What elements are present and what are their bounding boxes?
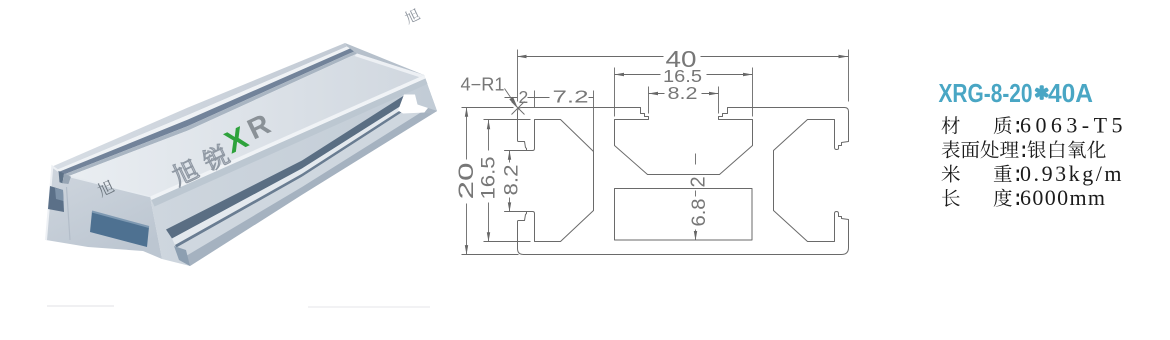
svg-text:7.2: 7.2	[553, 87, 589, 107]
svg-text:2: 2	[519, 87, 529, 107]
extrusion side face	[150, 75, 437, 266]
extrusion far cut end	[345, 43, 437, 111]
svg-text:2: 2	[688, 176, 710, 187]
dim 16.5 top line	[615, 74, 753, 76]
spec row 材质	[942, 116, 960, 134]
leader 4-R1	[510, 98, 516, 106]
svg-text:20: 20	[455, 163, 478, 200]
svg-text:6.8: 6.8	[689, 199, 710, 227]
dim 20 ext	[462, 108, 519, 255]
extrusion far top strip	[52, 43, 347, 170]
dim 40 line	[518, 56, 849, 58]
dim 16.5 top ext	[615, 68, 753, 117]
dim arrows	[517, 55, 527, 58]
spec row 长度	[942, 189, 960, 207]
ground shadow lines	[47, 305, 114, 307]
central rectangular cavity	[615, 189, 753, 241]
svg-text:16.5: 16.5	[479, 157, 500, 200]
far end side-slot notch	[398, 95, 428, 114]
extrusion near top strip	[65, 54, 424, 197]
end face side-slot mouth	[48, 186, 64, 212]
CAD cross-section drawing	[505, 108, 849, 255]
dim 8.2 left line	[509, 151, 511, 212]
svg-text:4−R1: 4−R1	[461, 75, 505, 95]
spec row 米重	[941, 165, 959, 183]
dim 8.2 top line	[649, 93, 719, 95]
dim 6.8 / 2 center line	[695, 154, 697, 241]
watermark 旭锐 XR	[164, 108, 277, 187]
dim 2 top-left line	[505, 97, 535, 99]
title star	[1034, 85, 1049, 100]
dim 40 extension lines	[518, 50, 849, 102]
svg-text:8.2: 8.2	[502, 165, 523, 196]
profile outline right	[524, 112, 849, 255]
end face central cavity	[90, 212, 149, 248]
product photo: aluminium extrusion 3D view	[46, 43, 437, 308]
dim 20 line	[466, 108, 468, 255]
dim 16.5 left ext	[484, 120, 531, 242]
svg-text:6063-T5: 6063-T5	[1020, 113, 1127, 138]
extrusion top T-slot groove	[59, 49, 355, 176]
svg-text:40A: 40A	[1048, 78, 1093, 108]
dim 7.2 ext	[535, 91, 594, 152]
svg-text:XRG-8-20: XRG-8-20	[939, 78, 1033, 108]
profile T-slot and roof	[615, 108, 849, 175]
dim 7.2 line	[535, 97, 594, 99]
svg-text:6000mm: 6000mm	[1020, 185, 1106, 210]
profile outline left	[505, 108, 641, 255]
top far bright edge line	[57, 47, 351, 173]
svg-text:0.93kg/m: 0.93kg/m	[1020, 161, 1124, 186]
arris highlight	[150, 75, 426, 200]
extrusion end face	[46, 167, 162, 260]
svg-text:8.2: 8.2	[668, 83, 698, 103]
end face right slot shadow	[174, 246, 190, 266]
dim 16.5 left line	[488, 120, 490, 242]
spec row 表面处理	[942, 140, 960, 158]
side C-channel groove	[166, 96, 411, 239]
dim 8.2 top ext	[649, 87, 719, 114]
end face T-slot notch	[59, 171, 65, 183]
